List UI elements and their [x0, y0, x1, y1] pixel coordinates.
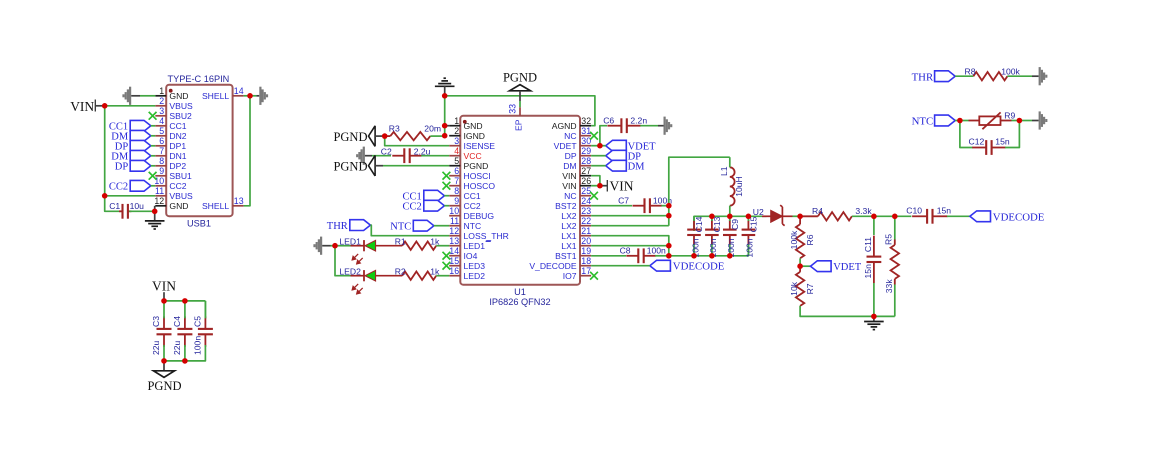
wire U2 to R4 node	[793, 215, 801, 217]
U1 pin 33 EP stub	[519, 107, 521, 116]
ground earth (USB bottom)	[145, 221, 165, 229]
global label VDECODE flag (pin 18)	[650, 260, 671, 271]
global label DP flag	[130, 160, 151, 171]
U1 pin 3 ISENSE	[449, 145, 460, 147]
svg-text:R7: R7	[805, 283, 815, 294]
ground earth (output divider)	[864, 322, 884, 330]
svg-text:VBUS: VBUS	[169, 191, 193, 201]
wire C9 bottom stub	[729, 244, 731, 256]
wire VDET flag stub (divider)	[800, 265, 810, 267]
wire CC1 to pin	[444, 195, 449, 197]
USB1 pin 11 VBUS	[155, 195, 166, 197]
svg-text:2: 2	[454, 126, 459, 136]
wire C15 top stub	[747, 216, 749, 221]
svg-text:R8: R8	[965, 66, 976, 76]
wire R2 to pin	[436, 275, 449, 277]
capacitor C14	[687, 220, 701, 245]
junction NTC/R9/C12	[957, 118, 963, 124]
wire R8 to earth	[1007, 75, 1032, 77]
connector USB1 pin-1 marker dot	[169, 89, 173, 93]
wire R7 to ground rail	[800, 306, 895, 317]
U1 pin 4 VCC	[449, 155, 460, 157]
global label NTC flag (top right)	[935, 115, 956, 126]
svg-text:33k: 33k	[884, 279, 894, 294]
svg-text:LX2: LX2	[561, 211, 577, 221]
svg-text:10k: 10k	[789, 281, 799, 296]
wire CC2 flag to pin	[151, 185, 156, 187]
svg-text:VIN: VIN	[562, 171, 576, 181]
svg-text:100n: 100n	[192, 336, 202, 355]
U1 pin 10 DEBUG	[449, 215, 460, 217]
wire to pin 1 GND (green)	[140, 95, 155, 97]
capacitor C13	[705, 220, 719, 245]
svg-text:15: 15	[449, 256, 459, 266]
svg-text:3: 3	[454, 136, 459, 146]
wire to PGND symbol	[163, 361, 165, 371]
U1 pin 11 NTC	[449, 225, 460, 227]
wire GND junction to earth	[154, 211, 156, 220]
junction C9 bottom	[727, 253, 733, 259]
wire earth to LED rail	[322, 245, 330, 247]
svg-text:2.2u: 2.2u	[414, 146, 431, 156]
svg-text:100k: 100k	[789, 230, 799, 249]
diode U2	[762, 205, 793, 226]
svg-text:L1: L1	[719, 166, 729, 176]
ground earth (C6, gray)	[664, 117, 673, 135]
net label VIN anchor tick (pin 26)	[606, 180, 608, 192]
no-connect X on U1 pin 6 HOSCI	[443, 172, 451, 180]
svg-text:IO7: IO7	[563, 271, 577, 281]
wire R5 bottom	[894, 285, 896, 317]
svg-text:V_DECODE: V_DECODE	[529, 261, 577, 271]
USB1 pin 10 CC2	[155, 185, 166, 187]
wire C6 from VDET node	[600, 126, 607, 146]
svg-text:R1: R1	[395, 236, 406, 246]
wire SHELL down to pin 13	[244, 96, 250, 206]
wire C8 to rail	[655, 255, 669, 257]
svg-text:VCC: VCC	[464, 151, 482, 161]
svg-text:10uH: 10uH	[734, 176, 744, 197]
svg-text:DN2: DN2	[169, 131, 186, 141]
svg-text:DP: DP	[565, 151, 577, 161]
wire pin 21 LX1	[591, 236, 669, 256]
global label VDECODE flag (output)	[970, 211, 991, 222]
ground earth (SHELL, gray)	[259, 87, 268, 105]
svg-text:15n: 15n	[937, 205, 952, 215]
capacitor C8	[626, 248, 655, 263]
wire R1 to pin	[436, 245, 449, 247]
svg-text:C10: C10	[906, 205, 922, 215]
global label DP flag	[606, 150, 627, 161]
svg-text:7: 7	[454, 176, 459, 186]
svg-text:CC2: CC2	[169, 181, 186, 191]
LED LED1	[351, 240, 403, 251]
wire junction to pin 3 ISENSE	[385, 136, 450, 146]
svg-text:SBU1: SBU1	[169, 171, 192, 181]
junction LX1	[666, 243, 672, 249]
svg-text:22u: 22u	[151, 340, 161, 355]
capacitor C12	[972, 140, 1005, 155]
svg-text:IP6826 QFN32: IP6826 QFN32	[489, 297, 550, 307]
USB1 pin 4 CC1	[155, 125, 166, 127]
svg-text:PGND: PGND	[333, 160, 367, 174]
svg-text:LX1: LX1	[561, 241, 577, 251]
svg-text:30: 30	[581, 136, 591, 146]
svg-text:C11: C11	[863, 237, 873, 252]
wire to C10	[895, 215, 912, 217]
svg-text:NTC: NTC	[390, 222, 411, 233]
svg-text:16: 16	[449, 266, 459, 276]
svg-text:10u: 10u	[130, 201, 145, 211]
U1 pin 21 LX1	[580, 235, 591, 237]
svg-text:C14: C14	[694, 216, 704, 232]
svg-text:14: 14	[449, 246, 459, 256]
svg-text:DM: DM	[563, 161, 576, 171]
junction C13 top	[709, 214, 715, 220]
no-connect X on U1 pin 25 NC	[590, 192, 598, 200]
svg-text:32: 32	[581, 116, 591, 126]
wire pin 28 DM	[591, 165, 606, 167]
svg-text:LED2: LED2	[464, 271, 486, 281]
svg-text:LED2: LED2	[339, 266, 361, 276]
U1 pin 7 HOSCO	[449, 185, 460, 187]
wire earth to rail	[444, 86, 446, 96]
wire pin 19 BST1 to C8	[591, 255, 626, 257]
svg-text:GND: GND	[169, 91, 188, 101]
U1 pin 19 BST1	[580, 255, 591, 257]
svg-text:22: 22	[581, 216, 591, 226]
inductor L1	[730, 167, 735, 205]
junction PGND/C3	[161, 358, 167, 364]
svg-text:100n: 100n	[647, 245, 666, 255]
wire C10 to VDECODE flag	[947, 215, 970, 217]
svg-text:7: 7	[159, 146, 164, 156]
svg-text:10: 10	[154, 176, 164, 186]
svg-text:5: 5	[159, 126, 164, 136]
svg-text:18: 18	[581, 256, 591, 266]
no-connect X on USB1 pin 3 SBU2	[149, 112, 157, 120]
global label DM flag	[130, 130, 151, 141]
svg-text:25: 25	[581, 186, 591, 196]
wire pin 24 BST2 to C7	[591, 205, 632, 207]
wire C2 to pin 4 VCC	[421, 155, 449, 157]
wire NTC to R9	[955, 120, 960, 122]
power flag PGND (R3)	[369, 126, 376, 147]
capacitor C11	[873, 216, 875, 235]
wire C6 to gray earth	[640, 125, 658, 127]
svg-text:CC2: CC2	[464, 201, 481, 211]
ground earth (LEDs, gray)	[313, 237, 322, 255]
wire C7 to LX2 node	[661, 205, 668, 207]
wire C15 bottom stub	[747, 244, 749, 256]
wire C14 bottom stub	[693, 244, 695, 256]
junction C1/GND	[152, 209, 158, 215]
USB1 pin 1 GND	[155, 95, 166, 97]
svg-text:17: 17	[581, 266, 591, 276]
svg-text:ISENSE: ISENSE	[464, 141, 496, 151]
USB1 pin 14 SHELL	[233, 95, 244, 97]
svg-text:14: 14	[234, 86, 244, 96]
wire top rail to AGND	[445, 96, 595, 126]
svg-text:28: 28	[581, 156, 591, 166]
wire to pin 5 PGND	[383, 165, 449, 167]
wire earth to pin 1 GND	[131, 95, 140, 97]
svg-text:100n: 100n	[745, 238, 755, 257]
svg-text:VIN: VIN	[70, 99, 94, 114]
svg-text:VIN: VIN	[562, 181, 576, 191]
svg-text:22u: 22u	[172, 340, 182, 355]
wire to LED1 cathode	[335, 245, 351, 247]
U1 pin 1 GND	[449, 125, 460, 127]
global label DP flag	[130, 140, 151, 151]
wire PGND flag to R3	[375, 135, 385, 137]
power symbol PGND (U1 top)	[510, 85, 531, 91]
svg-text:VDECODE: VDECODE	[673, 261, 725, 273]
global label NTC flag (U1)	[413, 220, 434, 231]
capacitor C15	[742, 220, 756, 245]
U1 pin 2 IGND	[449, 135, 460, 137]
junction ground rail	[871, 314, 877, 320]
U1 pin 6 HOSCI	[449, 175, 460, 177]
ground earth (C2, gray)	[356, 147, 365, 165]
USB1 pin 12 GND	[155, 205, 166, 207]
svg-text:100k: 100k	[1001, 66, 1020, 76]
svg-text:29: 29	[581, 146, 591, 156]
net label VIN anchor tick	[94, 100, 96, 112]
svg-text:USB1: USB1	[187, 218, 211, 228]
svg-text:U2: U2	[753, 207, 764, 217]
U1 pin 25 NC	[580, 195, 591, 197]
svg-text:VIN: VIN	[152, 279, 176, 294]
wire pin 14 SHELL to ground	[244, 95, 250, 97]
svg-text:11: 11	[155, 186, 164, 196]
U1 pin 13 LED1 overbar	[486, 240, 491, 242]
U1 pin 8 CC1	[449, 195, 460, 197]
ground earth (U1 top)	[435, 78, 455, 86]
svg-text:24: 24	[581, 196, 591, 206]
svg-text:C3: C3	[151, 316, 161, 327]
ground earth (NTC, gray)	[1039, 111, 1048, 129]
svg-text:2.2n: 2.2n	[630, 115, 647, 125]
wire pin 12 GND down	[154, 206, 156, 212]
svg-text:PGND: PGND	[147, 379, 181, 393]
resistor R8	[973, 72, 1007, 80]
svg-text:LX2: LX2	[561, 221, 577, 231]
junction LED rail	[332, 243, 338, 249]
svg-text:PGND: PGND	[464, 161, 489, 171]
junction pin 2 IGND	[442, 133, 448, 139]
global label CC1 flag	[130, 120, 151, 131]
svg-text:31: 31	[581, 126, 591, 136]
U1 pin 16 LED2	[449, 275, 460, 277]
global label CC2 flag (U1)	[424, 200, 445, 211]
junction C14 bottom	[691, 253, 697, 259]
U1 pin 26 VIN	[580, 185, 591, 187]
svg-text:SHELL: SHELL	[202, 91, 229, 101]
wire VIN to VBUS rail	[95, 105, 104, 107]
wire earth to C2	[365, 155, 372, 157]
resistor R5	[894, 216, 896, 239]
svg-text:CC1: CC1	[169, 121, 186, 131]
resistor R3	[385, 135, 391, 137]
U1 pin 18 V_DECODE	[580, 265, 591, 267]
global label DM flag	[606, 160, 627, 171]
svg-text:12: 12	[449, 226, 459, 236]
junction VDET/C6	[597, 143, 603, 149]
wire pin 27 VIN	[591, 176, 600, 186]
wire rail down to pin 1	[444, 96, 446, 136]
U1 pin 29 DP	[580, 155, 591, 157]
no-connect X on USB1 pin 9 SBU1	[149, 172, 157, 180]
svg-text:NTC: NTC	[912, 116, 934, 128]
svg-text:R6: R6	[805, 234, 815, 245]
capacitor C4	[177, 316, 192, 346]
junction LX2	[666, 213, 672, 219]
no-connect X on U1 pin 7 HOSCO	[443, 182, 451, 190]
wire C12 left leg	[960, 121, 973, 148]
U1 pin 17 IO7	[580, 275, 591, 277]
wire pin 22 LX2	[591, 225, 669, 227]
svg-text:TYPE-C 16PIN: TYPE-C 16PIN	[168, 74, 230, 84]
wire THR to R8	[955, 75, 973, 77]
USB1 pin 13 SHELL	[233, 205, 244, 207]
svg-text:C8: C8	[620, 245, 631, 255]
junction C7/LX2	[666, 203, 672, 209]
svg-text:13: 13	[449, 236, 459, 246]
svg-text:PGND: PGND	[333, 130, 367, 144]
wire VIN top rail	[164, 300, 205, 302]
no-connect X on U1 pin 31 NC	[590, 132, 598, 140]
resistor R7	[799, 266, 801, 272]
svg-text:6: 6	[159, 136, 164, 146]
wire C12 right leg	[1005, 121, 1019, 148]
resistor R6	[799, 216, 801, 224]
svg-text:R3: R3	[389, 123, 400, 133]
svg-text:1k: 1k	[430, 236, 440, 246]
svg-text:R5: R5	[884, 234, 894, 245]
svg-text:27: 27	[581, 166, 591, 176]
wire VBUS vertical rail	[104, 106, 106, 196]
wire R4 to output node	[852, 215, 895, 217]
svg-text:33: 33	[508, 104, 518, 114]
capacitor C1	[119, 204, 131, 219]
wire flying-cap top rail	[694, 216, 767, 231]
svg-text:BST2: BST2	[555, 201, 577, 211]
svg-text:LED1: LED1	[464, 241, 486, 251]
svg-text:12: 12	[154, 196, 164, 206]
svg-text:IGND: IGND	[464, 131, 485, 141]
wire ground stem	[873, 316, 875, 321]
wire rail to pin 11 VBUS	[105, 195, 156, 197]
svg-text:R2: R2	[395, 266, 406, 276]
capacitor C7	[633, 198, 662, 213]
wire C13 bottom stub	[711, 244, 713, 256]
svg-text:LOSS_THR: LOSS_THR	[464, 231, 509, 241]
wire PGND to EP (green)	[519, 101, 521, 107]
svg-text:R4: R4	[812, 206, 823, 216]
svg-text:IO4: IO4	[464, 251, 478, 261]
wire to thermistor R9	[960, 120, 969, 122]
svg-text:6: 6	[454, 166, 459, 176]
wire R3 to pin 2 IGND	[430, 135, 444, 137]
wire pin 20 LX1	[591, 245, 669, 247]
junction C8/LX1/rail	[666, 253, 672, 259]
wire C14 top stub	[693, 216, 695, 221]
junction C11 top	[871, 214, 877, 220]
USB1 pin 9 SBU1	[155, 175, 166, 177]
wire LED rail down to LED2	[335, 246, 351, 276]
svg-text:1k: 1k	[430, 266, 440, 276]
svg-text:C5: C5	[192, 316, 202, 327]
capacitor C3	[157, 316, 172, 346]
wire to gray earth (NTC)	[1019, 120, 1032, 122]
thermistor R9	[969, 112, 1012, 129]
wire flying-cap bottom rail	[669, 241, 749, 256]
svg-text:THR: THR	[327, 221, 348, 232]
resistor R1	[402, 242, 436, 250]
junction U2/R4/R6	[797, 214, 803, 220]
capacitor C5	[204, 301, 206, 319]
LED LED2 emission arrows	[352, 284, 363, 294]
svg-text:NC: NC	[564, 191, 576, 201]
wire to C2	[372, 155, 391, 157]
svg-text:HOSCO: HOSCO	[464, 181, 496, 191]
svg-text:C15: C15	[748, 216, 758, 232]
U1 pin 31 NC	[580, 135, 591, 137]
svg-text:15n: 15n	[863, 264, 873, 279]
wire C13 top stub	[711, 216, 713, 221]
wire C3 top lead	[163, 301, 165, 318]
U1 pin 14 IO4	[449, 255, 460, 257]
svg-text:GND: GND	[464, 121, 483, 131]
connector USB1 body	[166, 85, 232, 217]
wire NTC to pin 11	[434, 225, 449, 227]
wire DM flag to pin	[151, 155, 156, 157]
junction C9/L1	[727, 214, 733, 220]
LED LED2	[351, 270, 403, 281]
U1 pin 22 LX2	[580, 225, 591, 227]
svg-text:8: 8	[159, 156, 164, 166]
svg-text:CC2: CC2	[403, 202, 422, 213]
resistor R2	[402, 272, 436, 280]
wire rail down to C1	[105, 196, 122, 212]
global label CC2 flag	[130, 180, 151, 191]
svg-text:C7: C7	[618, 195, 629, 205]
U1 pin 28 DM	[580, 165, 591, 167]
svg-text:CC1: CC1	[464, 191, 481, 201]
junction VBUS rail / pin 11	[102, 193, 108, 199]
svg-text:C1: C1	[109, 201, 120, 211]
svg-text:C13: C13	[712, 216, 722, 232]
USB1 pin 6 DP1	[155, 145, 166, 147]
USB1 pin 2 VBUS	[155, 105, 166, 107]
wire VIN label down	[163, 292, 165, 301]
U1 pin 13 LED1	[449, 245, 460, 247]
svg-text:DN1: DN1	[169, 151, 186, 161]
U1 pin 27 VIN	[580, 175, 591, 177]
svg-text:26: 26	[581, 176, 591, 186]
wire pin 30 VDET	[591, 145, 600, 147]
svg-text:10: 10	[449, 206, 459, 216]
svg-text:VDECODE: VDECODE	[993, 211, 1045, 223]
wire DP flag to pin	[151, 165, 156, 167]
svg-text:9: 9	[159, 166, 164, 176]
ground earth (R8, gray)	[1039, 67, 1048, 85]
junction VIN	[597, 183, 603, 189]
IC U1 pin-1 marker dot	[463, 120, 467, 124]
wire VIN label stub	[600, 185, 607, 187]
wire LX2 vertical to L1	[669, 157, 730, 226]
